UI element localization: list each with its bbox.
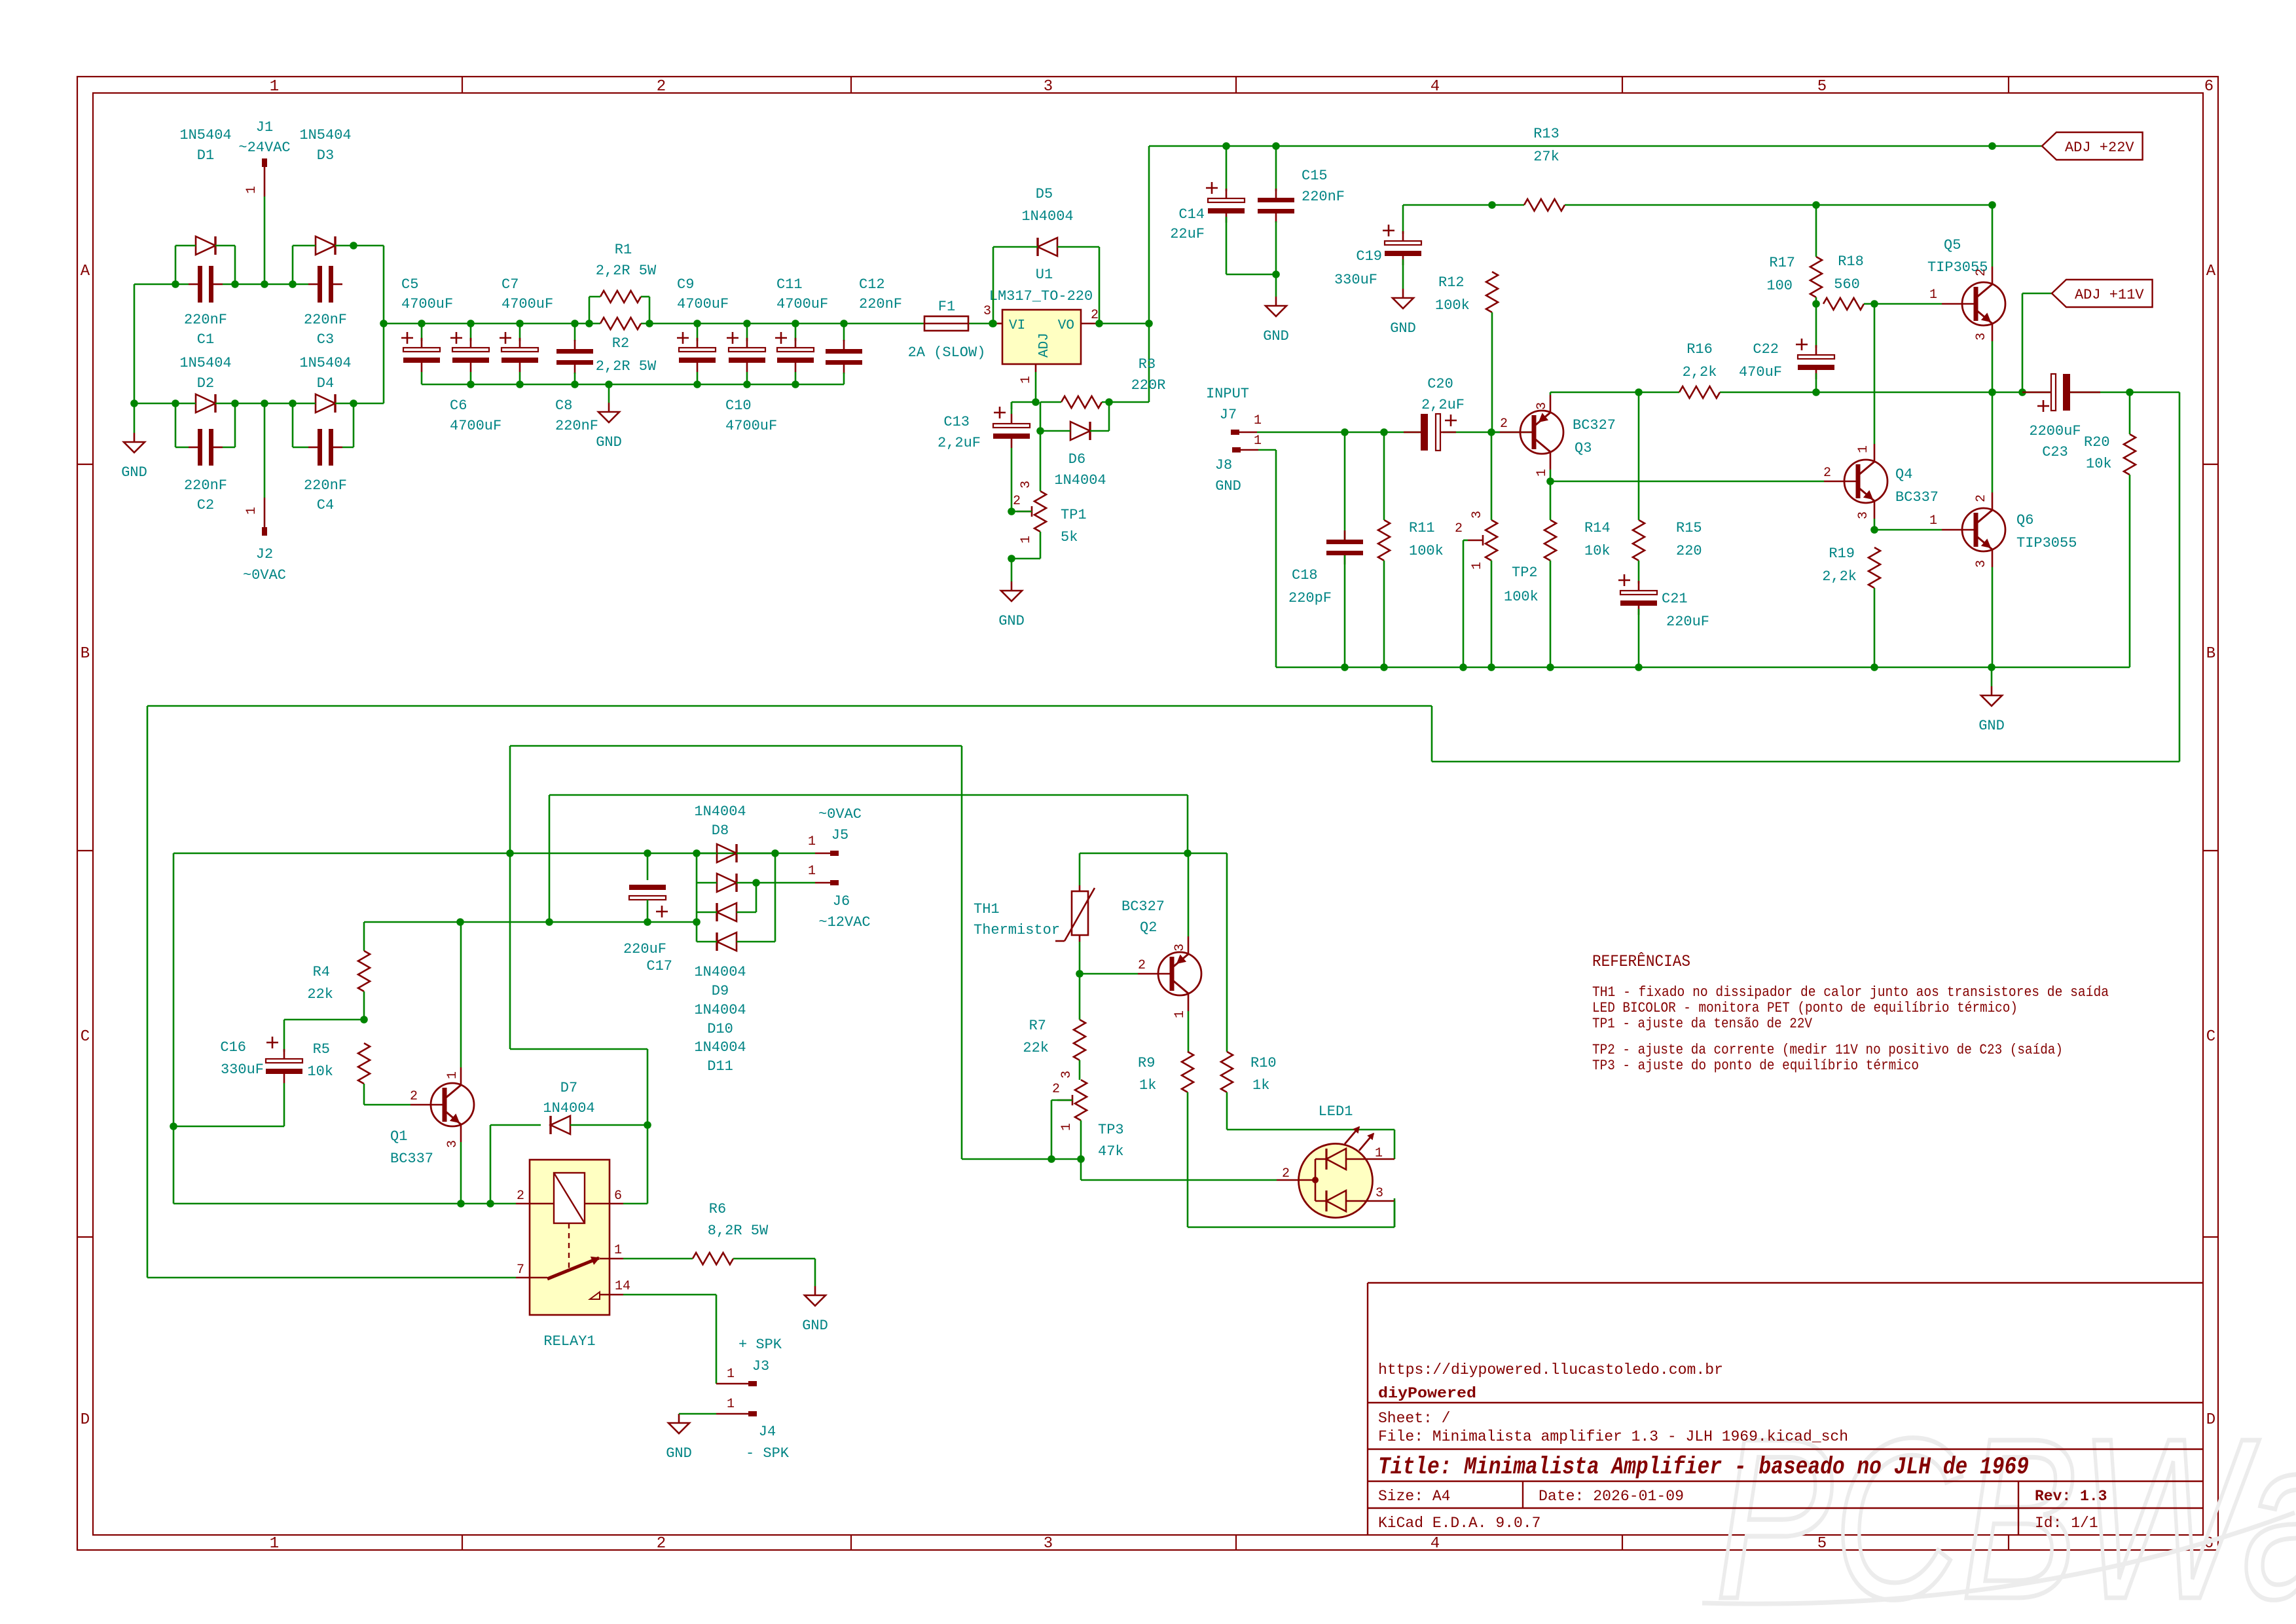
wire C4 right — [342, 403, 354, 447]
junction C6 top — [467, 320, 475, 327]
resistor R3 — [1061, 396, 1102, 408]
svg-text:A: A — [81, 263, 90, 280]
svg-text:7: 7 — [517, 1263, 524, 1278]
Q1 pin 1 — [445, 1071, 460, 1079]
svg-text:R16: R16 — [1686, 341, 1713, 358]
wire Q1e to relay — [461, 1203, 516, 1205]
junction P x779 — [506, 849, 514, 857]
junction C15 bot — [1272, 270, 1280, 278]
svg-text:220nF: 220nF — [184, 477, 227, 494]
svg-text:1N4004: 1N4004 — [543, 1100, 594, 1116]
junction P dstack — [693, 849, 701, 857]
capacitor C15 — [1258, 146, 1294, 274]
svg-text:3: 3 — [1856, 511, 1871, 519]
capacitor C12 — [826, 323, 862, 384]
wire R7 wires — [1079, 974, 1081, 1080]
junction Q5Q6 out — [1988, 388, 1996, 396]
svg-text:330uF: 330uF — [1334, 272, 1377, 288]
svg-text:1: 1 — [727, 1397, 735, 1412]
svg-text:D7: D7 — [560, 1080, 577, 1096]
svg-text:220nF: 220nF — [304, 312, 347, 328]
label J6 12VAC — [818, 914, 870, 931]
svg-text:1: 1 — [1173, 1010, 1188, 1018]
wire TH1 bottom — [1079, 942, 1081, 974]
svg-text:C19: C19 — [1356, 248, 1382, 265]
label RELAY1 — [543, 1333, 595, 1350]
svg-text:Q1: Q1 — [390, 1128, 407, 1145]
svg-text:220pF: 220pF — [1288, 590, 1332, 606]
resistor R10 — [1221, 1052, 1233, 1092]
svg-text:B: B — [2206, 645, 2215, 663]
wire R15 to C21 — [1638, 561, 1640, 583]
Q6 pin 2 — [1974, 494, 1989, 502]
svg-text:220nF: 220nF — [1302, 189, 1345, 205]
svg-text:GND: GND — [1390, 320, 1416, 337]
resistor R7 — [1074, 1020, 1085, 1060]
junction TP3 wiper — [1048, 1155, 1055, 1163]
svg-text:2: 2 — [1013, 494, 1021, 509]
diode D6 — [1070, 422, 1090, 440]
wire D1 right — [215, 246, 235, 284]
ground GND C15 — [1263, 297, 1289, 344]
svg-text:Title: Minimalista Amplifier -: Title: Minimalista Amplifier - baseado n… — [1378, 1454, 2029, 1481]
label Q1 — [390, 1128, 433, 1167]
wire D4 to +node — [354, 323, 384, 403]
svg-text:C6: C6 — [450, 397, 467, 414]
label R2 — [596, 335, 657, 375]
junction D5 left — [989, 320, 997, 327]
label C18 — [1288, 567, 1332, 606]
junction C18 top — [1341, 428, 1349, 436]
svg-text:C14: C14 — [1178, 206, 1205, 223]
transistor Q4 — [1824, 444, 1887, 519]
label C22 — [1739, 341, 1782, 380]
label R1 — [596, 242, 657, 279]
TP2 pin 1 — [1470, 562, 1485, 570]
wire gnd to J4 — [679, 1413, 716, 1415]
wire R17 bottom — [1815, 297, 1817, 304]
label R15 — [1676, 520, 1702, 559]
svg-text:3: 3 — [1470, 511, 1485, 519]
svg-text:C1: C1 — [197, 331, 214, 348]
svg-text:J1: J1 — [256, 119, 273, 136]
label R19 — [1822, 545, 1857, 585]
wire +22V riser — [1148, 146, 1150, 323]
Q1 pin 2 — [410, 1089, 418, 1104]
junction D2 left — [172, 399, 179, 407]
svg-text:3: 3 — [1974, 333, 1989, 341]
wire D7 left — [490, 1125, 541, 1204]
wire ADJ row to C13 — [1011, 402, 1036, 409]
junction R3 right — [1105, 398, 1113, 406]
svg-text:J7: J7 — [1220, 407, 1237, 423]
wire R20 wires — [2129, 392, 2131, 667]
wire Q6 collector — [1992, 392, 1994, 492]
label C7 — [501, 276, 553, 312]
svg-text:470uF: 470uF — [1739, 364, 1782, 380]
wire C2 right — [223, 403, 235, 447]
capacitor C21 — [1618, 574, 1657, 667]
wire J1 to bridge — [264, 196, 266, 284]
transistor Q6 — [1942, 492, 2005, 567]
label C8 — [555, 397, 598, 434]
wire TH1 top line — [1080, 853, 1227, 1052]
svg-text:220nF: 220nF — [304, 477, 347, 494]
label D6 — [1054, 451, 1106, 489]
svg-text:BC337: BC337 — [390, 1151, 433, 1167]
TP1 pin 2 — [1013, 494, 1021, 509]
U1 pin number 1 — [1019, 376, 1034, 384]
title block sheet — [1378, 1410, 1450, 1427]
junction R13 right — [1988, 201, 1996, 209]
label U1 — [1036, 267, 1053, 283]
svg-text:TP3 - ajuste do ponto de equil: TP3 - ajuste do ponto de equilíbrio térm… — [1592, 1058, 1919, 1074]
junction bottom TP2w — [1459, 663, 1467, 671]
svg-text:J5: J5 — [831, 827, 848, 843]
label J4 — [759, 1424, 776, 1440]
svg-text:BC327: BC327 — [1573, 417, 1616, 434]
junction Q dstack — [693, 918, 701, 926]
wire +22V rail — [1149, 145, 2042, 147]
label C17 — [623, 941, 672, 974]
svg-text:1: 1 — [244, 507, 259, 515]
TP3 pin 1 — [1059, 1123, 1074, 1131]
svg-text:1: 1 — [1019, 536, 1034, 544]
svg-text:+ SPK: + SPK — [738, 1337, 782, 1353]
label R7 — [1023, 1018, 1049, 1056]
label D2 1N5404 — [179, 355, 231, 392]
svg-text:C5: C5 — [401, 276, 418, 293]
label C3 220nF — [304, 312, 347, 348]
svg-text:RELAY1: RELAY1 — [543, 1333, 595, 1350]
wire Q5 base — [1874, 303, 1942, 305]
junction C5 top — [418, 320, 426, 327]
svg-text:14: 14 — [615, 1279, 630, 1294]
wire VO to riser — [1099, 323, 1149, 325]
label C5 — [401, 276, 453, 312]
label R16 — [1683, 341, 1717, 380]
svg-text:GND: GND — [998, 613, 1025, 629]
svg-text:1N5404: 1N5404 — [299, 127, 351, 143]
svg-text:J6: J6 — [833, 893, 850, 910]
label R5 — [307, 1041, 333, 1080]
capacitor C11 — [775, 323, 814, 384]
diode D5 — [1038, 238, 1057, 256]
svg-text:LED BICOLOR - monitora PET (po: LED BICOLOR - monitora PET (ponto de equ… — [1592, 1000, 2018, 1016]
svg-text:TIP3055: TIP3055 — [2016, 535, 2077, 551]
junction bottom R19 — [1870, 663, 1878, 671]
Q5 pin 1 — [1929, 287, 1937, 303]
junction C8 bot — [571, 380, 579, 388]
svg-text:BC327: BC327 — [1121, 898, 1165, 915]
svg-text:C8: C8 — [555, 397, 572, 414]
wire TP3 wiper — [1051, 1100, 1072, 1159]
wire Q3 collector to Q4 — [1550, 481, 1824, 483]
svg-text:C11: C11 — [776, 276, 803, 293]
label D4 1N5404 — [299, 355, 351, 392]
transistor Q1 — [410, 1067, 474, 1142]
label ~0VAC — [243, 567, 286, 583]
svg-text:1: 1 — [270, 78, 279, 96]
svg-text:1N4004: 1N4004 — [694, 964, 746, 980]
svg-text:1: 1 — [270, 1535, 279, 1553]
diode D9 — [717, 874, 737, 892]
wire J6 wire — [756, 882, 815, 884]
svg-text:VO: VO — [1058, 318, 1074, 333]
capacitor C5 — [401, 323, 440, 384]
svg-text:220nF: 220nF — [184, 312, 227, 328]
wire D10 wires — [697, 883, 756, 912]
label R3 — [1131, 356, 1166, 394]
wire VO down — [1148, 323, 1150, 402]
svg-text:R4: R4 — [313, 964, 330, 980]
svg-text:C9: C9 — [677, 276, 694, 293]
label R14 — [1584, 520, 1611, 559]
label C14 — [1170, 206, 1205, 242]
wire C4 loop — [293, 403, 308, 447]
svg-text:3: 3 — [1535, 402, 1550, 410]
connector J7 pin 1 — [1231, 413, 1262, 435]
title block frame — [1368, 1283, 2203, 1535]
svg-text:1k: 1k — [1252, 1077, 1269, 1094]
svg-text:Size: A4: Size: A4 — [1378, 1488, 1450, 1505]
junction D7 right — [644, 1121, 651, 1129]
label LED1 — [1319, 1103, 1353, 1120]
U1 pin name ADJ — [1037, 333, 1052, 358]
label R9 — [1138, 1055, 1156, 1094]
LED LED1 bicolor — [1277, 1127, 1394, 1218]
TP2 pin 2 — [1455, 521, 1463, 536]
label R10 — [1250, 1055, 1277, 1094]
resistor R18 — [1823, 298, 1864, 310]
wire R14 wires — [1550, 481, 1552, 667]
svg-text:C: C — [81, 1028, 90, 1046]
junction Q x839 — [545, 918, 553, 926]
svg-text:1: 1 — [244, 186, 259, 194]
svg-text:560: 560 — [1834, 276, 1860, 293]
label F1 — [938, 299, 955, 315]
svg-text:F1: F1 — [938, 299, 955, 315]
svg-text:1N5404: 1N5404 — [179, 127, 231, 143]
title block title — [1378, 1454, 2029, 1481]
svg-text:1N4004: 1N4004 — [694, 803, 746, 820]
label D1 1N5404 — [179, 127, 231, 164]
svg-text:KiCad E.D.A. 9.0.7: KiCad E.D.A. 9.0.7 — [1378, 1515, 1540, 1532]
junction C10 bot — [743, 380, 751, 388]
svg-text:2: 2 — [1282, 1166, 1290, 1181]
svg-text:2: 2 — [1974, 494, 1989, 502]
svg-text:C18: C18 — [1292, 567, 1318, 583]
label C15 — [1302, 168, 1345, 205]
svg-text:2: 2 — [1974, 268, 1989, 276]
svg-text:1: 1 — [1375, 1146, 1383, 1161]
capacitor C7 — [500, 323, 538, 384]
svg-text:TP3: TP3 — [1098, 1122, 1124, 1138]
wire TP1 bottom — [1011, 532, 1040, 559]
junction bottom Q6 — [1988, 663, 1995, 671]
svg-text:1: 1 — [1019, 376, 1034, 384]
svg-text:3: 3 — [1059, 1071, 1074, 1079]
svg-text:1: 1 — [727, 1367, 735, 1382]
wire R5 to Q1 — [364, 1084, 410, 1105]
title block company — [1378, 1385, 1476, 1402]
resistor R2 — [600, 318, 641, 329]
junction GND rail tap — [605, 380, 613, 388]
svg-text:VI: VI — [1009, 318, 1025, 333]
svg-text:5k: 5k — [1061, 529, 1078, 545]
TP3 pin 3 — [1059, 1071, 1074, 1079]
svg-text:C7: C7 — [501, 276, 519, 293]
wire TH1 drop — [1079, 853, 1081, 885]
wire Q4 collector up — [1874, 304, 1876, 444]
wire C15 gnd — [1275, 274, 1277, 297]
svg-text:U1: U1 — [1036, 267, 1053, 283]
svg-text:2,2k: 2,2k — [1683, 364, 1717, 380]
svg-text:~0VAC: ~0VAC — [243, 567, 286, 583]
resistor R9 — [1182, 1052, 1194, 1092]
svg-text:GND: GND — [1263, 328, 1289, 344]
U1 pin name VI — [1009, 318, 1025, 333]
svg-text:D9: D9 — [712, 983, 729, 999]
svg-text:J3: J3 — [752, 1358, 769, 1375]
label C12 — [859, 276, 902, 312]
svg-text:A: A — [2206, 263, 2216, 280]
svg-text:D5: D5 — [1036, 186, 1053, 202]
svg-text:TP2 - ajuste da corrente (medi: TP2 - ajuste da corrente (medir 11V no p… — [1592, 1042, 2063, 1058]
label D8 — [694, 803, 746, 839]
junction Q C17 — [644, 918, 651, 926]
svg-text:TH1 - fixado no dissipador de: TH1 - fixado no dissipador de calor junt… — [1592, 984, 2109, 1001]
svg-text:LED1: LED1 — [1319, 1103, 1353, 1120]
label INPUT — [1206, 386, 1249, 402]
svg-text:C20: C20 — [1427, 376, 1453, 392]
regulator U1 body — [1002, 310, 1081, 364]
svg-text:1: 1 — [1254, 413, 1262, 428]
junction Q1 emitter — [457, 1200, 465, 1208]
TP3 pin 2 — [1052, 1082, 1060, 1097]
svg-text:Thermistor: Thermistor — [974, 922, 1060, 938]
wire R3 left — [1040, 401, 1061, 403]
label R4 — [307, 964, 333, 1003]
label ~24VAC — [238, 139, 290, 156]
svg-text:GND: GND — [666, 1445, 692, 1462]
svg-text:2,2uF: 2,2uF — [1421, 397, 1465, 413]
svg-text:GND: GND — [1978, 718, 2005, 734]
wire TP1 top — [1040, 431, 1042, 491]
wire C13 gnd — [1011, 559, 1013, 581]
label C19 — [1334, 248, 1382, 288]
transistor Q3 — [1500, 395, 1563, 470]
svg-text:~12VAC: ~12VAC — [818, 914, 870, 931]
diode D3 — [316, 236, 335, 255]
svg-text:Rev: 1.3: Rev: 1.3 — [2035, 1488, 2107, 1505]
label U1 value — [989, 288, 1093, 304]
svg-text:6: 6 — [2204, 78, 2214, 96]
wire R11 wires — [1383, 432, 1385, 667]
TP1 pin 1 — [1019, 536, 1034, 544]
ground GND R6 — [802, 1286, 828, 1334]
svg-text:4700uF: 4700uF — [677, 296, 729, 312]
label D9 name — [694, 964, 746, 999]
junction R1 right — [646, 320, 653, 327]
label J8 — [1215, 457, 1232, 473]
label R13 — [1533, 126, 1559, 165]
wire C2 loop — [175, 403, 189, 447]
Q3 pin 1 — [1535, 469, 1550, 477]
junction J1 node — [261, 280, 268, 288]
svg-text:GND: GND — [1215, 478, 1241, 494]
svg-text:https://diypowered.llucastoled: https://diypowered.llucastoledo.com.br — [1378, 1361, 1723, 1378]
ground GND amp — [1978, 667, 2005, 734]
junction D7 anode drop — [486, 1200, 494, 1208]
label C20 — [1421, 376, 1465, 413]
title block size — [1378, 1488, 1450, 1505]
svg-text:1: 1 — [808, 864, 816, 879]
Q5 pin 3 — [1974, 333, 1989, 341]
wire D8 wires — [697, 853, 775, 855]
resistor R20 — [2124, 434, 2136, 475]
junction C8 top — [571, 320, 579, 327]
svg-text:R14: R14 — [1584, 520, 1611, 536]
label Q2 — [1121, 898, 1165, 936]
label D7 — [543, 1080, 594, 1116]
wire TP2 wiper — [1463, 540, 1468, 667]
wire Q3 emitter row — [1550, 392, 1816, 394]
wire D1 left — [175, 246, 196, 284]
Q1 pin 3 — [445, 1140, 460, 1148]
svg-text:C21: C21 — [1662, 591, 1688, 607]
svg-text:3: 3 — [1044, 1535, 1053, 1553]
svg-text:1: 1 — [808, 834, 816, 849]
svg-text:Id: 1/1: Id: 1/1 — [2035, 1515, 2098, 1532]
label Q3 BC327 — [1573, 417, 1616, 456]
svg-text:C3: C3 — [317, 331, 334, 348]
svg-text:2: 2 — [1455, 521, 1463, 536]
svg-text:TP2: TP2 — [1512, 564, 1538, 581]
Q3 pin 2 — [1500, 416, 1508, 432]
label C10 — [725, 397, 777, 434]
junction D6 left — [1036, 427, 1044, 435]
svg-text:220: 220 — [1676, 543, 1702, 559]
global label ADJ +11V — [2052, 280, 2153, 307]
svg-text:Q2: Q2 — [1140, 919, 1157, 936]
svg-text:R9: R9 — [1138, 1055, 1155, 1071]
junction VI tap — [989, 320, 996, 327]
junction C9 bot — [693, 380, 701, 388]
label J8 GND — [1215, 478, 1241, 494]
svg-text:220nF: 220nF — [555, 418, 598, 434]
resistor R16 — [1679, 386, 1720, 398]
svg-text:R10: R10 — [1250, 1055, 1277, 1071]
svg-text:220uF: 220uF — [623, 941, 666, 957]
junction ADJ node — [1032, 398, 1040, 406]
svg-text:220R: 220R — [1131, 377, 1166, 394]
label C9 — [677, 276, 729, 312]
capacitor C13 — [993, 402, 1030, 509]
wire Q to R4 — [363, 922, 365, 951]
diode D11 — [717, 932, 737, 951]
label R18 — [1834, 253, 1864, 293]
svg-text:C17: C17 — [646, 958, 672, 974]
junction Q5 rail — [1988, 142, 1996, 150]
svg-text:4700uF: 4700uF — [776, 296, 828, 312]
svg-text:1: 1 — [445, 1071, 460, 1079]
relay pin 7 — [517, 1263, 524, 1278]
TP2 pin 3 — [1470, 511, 1485, 519]
svg-text:D3: D3 — [317, 147, 334, 164]
svg-text:3: 3 — [1173, 944, 1188, 951]
label C16 — [220, 1039, 264, 1078]
